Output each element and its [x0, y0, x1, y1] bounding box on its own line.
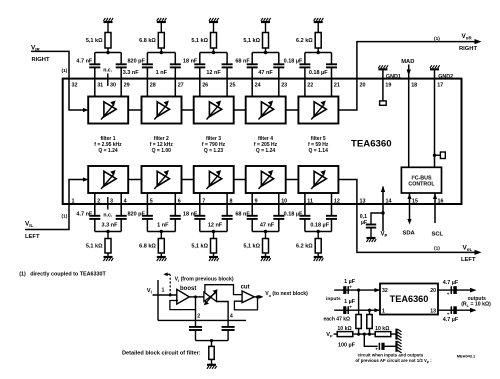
svg-text:32: 32 [72, 82, 78, 88]
svg-text:SDA: SDA [403, 231, 416, 237]
svg-text:47 nF: 47 nF [260, 222, 275, 228]
ground bottom section 2 [157, 256, 166, 258]
wire dashed from previous block [169, 275, 171, 296]
n.c. pin 30 stub [107, 74, 109, 87]
internal termination GND2 [440, 152, 445, 159]
arrow V_P up into IC [381, 186, 385, 192]
junction caps common [210, 339, 213, 342]
svg-text:4.7 µF: 4.7 µF [443, 317, 459, 323]
resistor 5,1 kohm bottom section 3 [213, 232, 215, 239]
wire GND2 stub [435, 154, 441, 156]
ground bottom section 1 [104, 256, 113, 258]
resistor 5,1 kohm top section 3 [213, 23, 215, 33]
op-amp filter5 right channel [298, 97, 338, 124]
supply rail top section 3 [209, 21, 218, 23]
svg-text:13: 13 [430, 308, 436, 314]
svg-text:10: 10 [281, 198, 287, 204]
svg-text:4: 4 [124, 198, 127, 204]
svg-text:47 nF: 47 nF [258, 70, 273, 76]
op-amp filter1 left channel [88, 166, 128, 193]
resistor 47k input top [358, 290, 360, 314]
capacitor 47 nF bottom section 4 right [278, 193, 280, 216]
svg-text:14: 14 [386, 198, 392, 204]
op-amp filter4 left channel [246, 166, 286, 193]
svg-text:GND1: GND1 [386, 74, 401, 80]
ground decoupling cap [367, 237, 376, 239]
svg-text:19: 19 [385, 82, 391, 88]
ground bottom section 4 [261, 256, 270, 258]
svg-text:12 nF: 12 nF [206, 70, 221, 76]
junction node bottom section 4 [264, 230, 267, 233]
wire attenuator to pin 4 [217, 302, 229, 327]
arrow V_oL output [475, 250, 482, 255]
wire cap bus bar bottom section 3 [200, 231, 227, 233]
svg-text:3.3 nF: 3.3 nF [123, 70, 140, 76]
svg-text:820 pF: 820 pF [127, 59, 145, 65]
op-amp filter3 right channel [194, 97, 234, 124]
svg-text:GND2: GND2 [438, 74, 453, 80]
wire pin 2 branch [195, 297, 197, 327]
resistor 10k mini 1 [337, 332, 353, 337]
svg-text:1 nF: 1 nF [157, 222, 169, 228]
op-amp filter1 right channel [88, 97, 128, 124]
svg-text:Q = 1.24: Q = 1.24 [98, 148, 118, 154]
arrow V_i previous block [166, 273, 170, 275]
op-amp filter2 right channel [142, 97, 182, 124]
wire V_IR input [31, 51, 86, 110]
resistor 5,1 kohm bottom section 4 [265, 232, 267, 239]
arrow V_oR output [475, 39, 482, 44]
svg-text:(1) directly coupled to TEA6: (1) directly coupled to TEA6330T [19, 271, 106, 277]
svg-text:2: 2 [197, 313, 200, 319]
svg-text:13: 13 [360, 198, 366, 204]
junction node bottom section 3 [212, 230, 215, 233]
svg-text:30: 30 [110, 82, 116, 88]
n.c. pin 3 stub [107, 197, 109, 210]
svg-text:5,1 kΩ: 5,1 kΩ [86, 38, 103, 44]
supply rail top section 2 [157, 21, 166, 23]
capacitor 820 pF top section 2 left [146, 53, 148, 65]
junction GND2 internal [433, 154, 436, 157]
wire chain top 1-2 [128, 109, 142, 111]
svg-text:5,1 kΩ: 5,1 kΩ [86, 243, 103, 249]
capacitor 68 nF top section 4 left [251, 53, 253, 65]
svg-text:6.8 kΩ: 6.8 kΩ [139, 243, 156, 249]
svg-text:VP: VP [381, 232, 388, 239]
svg-text:5,1 kΩ: 5,1 kΩ [191, 38, 208, 44]
op-amp filter4 right channel [246, 97, 286, 124]
wire output right channel pin 20 [338, 42, 478, 110]
op-amp filter5 left channel [298, 166, 338, 193]
arrow output 2 [470, 308, 477, 313]
resistor 5,1 kohm top section 4 [265, 23, 267, 33]
svg-text:26: 26 [202, 82, 208, 88]
svg-text:10 kΩ: 10 kΩ [337, 326, 351, 332]
capacitor 4.7 nF top section 1 left [94, 53, 96, 65]
wire MAD pin 18 [408, 65, 410, 168]
wire bypass top [205, 285, 242, 295]
svg-text:4.7 nF: 4.7 nF [76, 212, 93, 218]
wire GND1 pin 19 [382, 69, 384, 101]
svg-text:boost: boost [180, 286, 196, 292]
svg-text:0.18 µF: 0.18 µF [310, 222, 329, 228]
svg-text:12 nF: 12 nF [208, 222, 223, 228]
wire cap bus bar top section 2 [147, 52, 175, 54]
wire output 2 mini [438, 309, 471, 311]
wire boost feedback [170, 301, 196, 310]
svg-text:23: 23 [281, 82, 287, 88]
arrow MAD down [407, 70, 411, 76]
wire filter input [153, 294, 177, 296]
svg-text:18 nF: 18 nF [183, 59, 198, 65]
capacitor 4.7uF output top [450, 286, 452, 294]
capacitor 3.3 nF top section 1 right [120, 53, 122, 65]
svg-text:1 µF: 1 µF [344, 279, 356, 285]
svg-text:+: + [447, 312, 450, 317]
arrow into filter1 right channel [83, 108, 89, 112]
capacitor 0.18 uF bottom section 5 left [304, 193, 306, 216]
svg-text:Vi (from previous block): Vi (from previous block) [175, 276, 234, 283]
resistor 6.2 kohm top section 5 [317, 23, 319, 33]
junction node top section 2 [160, 51, 163, 54]
ground GND2 rail symbol [430, 68, 439, 70]
svg-text:CONTROL: CONTROL [408, 182, 435, 188]
svg-text:22: 22 [307, 82, 313, 88]
arrow into filter1 left channel [83, 177, 89, 181]
svg-text:1: 1 [72, 198, 75, 204]
svg-text:+: + [447, 291, 450, 296]
svg-text:+: + [375, 346, 378, 351]
svg-text:TEA6360: TEA6360 [351, 138, 392, 149]
junction rail 3 [368, 333, 371, 336]
svg-text:20: 20 [430, 288, 436, 294]
wire cap bus bar bottom section 5 [305, 231, 332, 233]
svg-text:4.7 nF: 4.7 nF [76, 59, 93, 65]
pin 1 tick detailed filter [157, 280, 159, 320]
capacitor 12 nF top section 3 right [226, 53, 228, 65]
svg-text:Vo (to next block): Vo (to next block) [265, 291, 308, 298]
svg-text:9: 9 [255, 198, 258, 204]
svg-text:31: 31 [97, 82, 103, 88]
svg-text:(1): (1) [434, 36, 440, 42]
resistor 47k input bottom [369, 310, 371, 314]
arrow V_o next block [259, 295, 264, 299]
svg-text:RIGHT: RIGHT [459, 46, 477, 52]
wire cap bus bar bottom section 2 [147, 231, 175, 233]
svg-text:0.18 µF: 0.18 µF [284, 59, 303, 65]
svg-text:Q = 1.00: Q = 1.00 [152, 148, 172, 154]
junction node bottom section 5 [317, 230, 320, 233]
capacitor filter node 2 [189, 326, 202, 328]
junction node top section 5 [317, 51, 320, 54]
wire chain top 3-4 [233, 109, 245, 111]
resistor filter common [211, 341, 213, 347]
capacitor 0.18 uF bottom section 5 right [331, 193, 333, 216]
wire V_P pin 14 [382, 187, 384, 232]
svg-text:4.7 µF: 4.7 µF [443, 280, 459, 286]
svg-text:10 kΩ: 10 kΩ [375, 326, 389, 332]
svg-text:n.c.: n.c. [103, 212, 112, 218]
junction node top section 3 [212, 51, 215, 54]
op-amp filter3 left channel [194, 166, 234, 193]
svg-text:LEFT: LEFT [25, 234, 40, 240]
svg-text:(1): (1) [434, 245, 440, 251]
wire to decoupling cap [371, 213, 383, 225]
arrow output 1 [470, 288, 477, 293]
wire caps common [196, 340, 229, 342]
svg-text:29: 29 [124, 82, 130, 88]
junction node top section 4 [264, 51, 267, 54]
wire cap bus bar top section 3 [200, 52, 227, 54]
wire input 1 mini [334, 289, 380, 291]
resistor 6.8 kohm top section 2 [160, 23, 162, 33]
svg-text:n.c.: n.c. [103, 67, 112, 73]
ground bottom section 5 [314, 256, 323, 258]
svg-text:0.18 µF: 0.18 µF [309, 70, 328, 76]
arrow into pin 1 [375, 308, 381, 312]
svg-text:17: 17 [437, 82, 443, 88]
arrow attenuator control [206, 291, 216, 303]
capacitor 1uF input bottom [343, 306, 346, 314]
svg-text:I²C-BUS: I²C-BUS [411, 176, 431, 182]
capacitor 1 nF top section 2 right [174, 53, 176, 65]
svg-text:5,1 kΩ: 5,1 kΩ [191, 243, 208, 249]
ground filter common [207, 364, 216, 366]
arrow into pin 32 [375, 288, 381, 292]
svg-text:21: 21 [334, 82, 340, 88]
capacitor 820 pF bottom section 2 left [146, 193, 148, 216]
svg-text:+: + [349, 305, 352, 310]
capacitor 1uF input top [343, 286, 346, 294]
capacitor 12 nF bottom section 3 right [226, 193, 228, 216]
svg-text:5,1 kΩ: 5,1 kΩ [243, 38, 260, 44]
capacitor 18 nF top section 3 left [199, 53, 201, 65]
svg-text:Q = 1.23: Q = 1.23 [204, 148, 224, 154]
svg-text:Detailed block circuit of filt: Detailed block circuit of filter: [122, 350, 201, 356]
junction dashed input [169, 294, 172, 297]
arrow SCL into block [433, 194, 437, 200]
resistor 5,1 kohm top section 1 [107, 23, 109, 33]
wire boost output [189, 296, 204, 298]
wire bottom rail detailed [158, 319, 246, 321]
resistor 6.8 kohm bottom section 2 [160, 232, 162, 239]
svg-text:0.18 µF: 0.18 µF [284, 212, 303, 218]
wire V_IL input [25, 180, 86, 230]
wire chain bottom 4-5 [285, 179, 298, 181]
wire chain bottom 3-4 [233, 179, 245, 181]
supply rail top section 1 [104, 21, 113, 23]
block TEA6360 mini [380, 284, 438, 315]
svg-text:MEH043.1: MEH043.1 [457, 353, 476, 358]
svg-text:(1): (1) [62, 68, 68, 74]
capacitor 47 nF top section 4 right [278, 53, 280, 65]
svg-text:4: 4 [230, 313, 233, 319]
wire SDA pin 15 [409, 193, 411, 222]
svg-text:6.2 kΩ: 6.2 kΩ [296, 38, 313, 44]
arrow SDA into block [407, 194, 411, 200]
wire chain bottom 2-3 [181, 179, 194, 181]
junction cut output [256, 295, 259, 298]
wire output left channel pin 13 [338, 180, 478, 253]
junction node bottom section 2 [160, 230, 163, 233]
wire cut feedback [234, 297, 257, 310]
capacitor 4.7uF output bottom [450, 306, 452, 314]
wire cap bus bar top section 4 [252, 52, 279, 54]
junction rail 1 [357, 333, 360, 336]
junction V_P decoupling [381, 211, 384, 214]
wire input 2 mini [334, 309, 380, 311]
svg-text:1 µF: 1 µF [344, 299, 356, 305]
ground bottom section 3 [209, 256, 218, 258]
capacitor 100uF [378, 343, 380, 350]
wire GND2 pin 17 [434, 69, 436, 167]
svg-text:16: 16 [438, 198, 444, 204]
junction node top section 1 [106, 51, 109, 54]
svg-text:Q = 1.24: Q = 1.24 [256, 148, 276, 154]
wire cap bus bar top section 5 [305, 52, 332, 54]
svg-text:5: 5 [150, 198, 153, 204]
variable attenuator symbol [204, 292, 210, 301]
svg-text:3: 3 [110, 198, 113, 204]
svg-text:3.3 nF: 3.3 nF [102, 222, 119, 228]
svg-text:inputs: inputs [326, 296, 341, 302]
junction node bottom section 1 [106, 230, 109, 233]
svg-text:(1): (1) [62, 214, 68, 220]
svg-text:Vi: Vi [147, 288, 152, 295]
supply rail top section 5 [314, 21, 323, 23]
svg-text:TEA6360: TEA6360 [390, 294, 429, 304]
svg-text:2: 2 [97, 198, 100, 204]
chassis ground 100uF [395, 341, 397, 352]
svg-text:27: 27 [178, 82, 184, 88]
svg-text:18: 18 [411, 82, 417, 88]
junction input top [357, 289, 360, 292]
svg-text:28: 28 [150, 82, 156, 88]
capacitor 0.18 uF top section 5 left [304, 53, 306, 65]
capacitor 3.3 nF bottom section 1 right [120, 193, 122, 216]
svg-text:(RL = 10 kΩ): (RL = 10 kΩ) [461, 302, 491, 308]
svg-text:15: 15 [412, 198, 418, 204]
wire SCL pin 16 [434, 193, 436, 223]
svg-text:6: 6 [178, 198, 181, 204]
wire 100uF branch [364, 334, 378, 346]
svg-text:LEFT: LEFT [461, 257, 476, 263]
svg-text:1: 1 [162, 288, 165, 294]
wire cap bus bar bottom section 1 [95, 231, 121, 233]
svg-text:SCL: SCL [432, 232, 444, 238]
svg-text:8: 8 [230, 198, 233, 204]
capacitor 68 nF bottom section 4 left [251, 193, 253, 216]
svg-text:7: 7 [202, 198, 205, 204]
capacitor 0.18 uF top section 5 right [331, 53, 333, 65]
svg-text:11: 11 [307, 198, 313, 204]
junction rail 2 [363, 333, 366, 336]
svg-text:cut: cut [241, 284, 250, 290]
svg-text:24: 24 [255, 82, 261, 88]
wire chain top 2-3 [181, 109, 194, 111]
op-amp cut [242, 291, 254, 303]
resistor 5,1 kohm bottom section 1 [107, 232, 109, 239]
svg-text:5,1 kΩ: 5,1 kΩ [243, 243, 260, 249]
resistor 10k mini 2 [375, 332, 391, 337]
svg-text:12: 12 [334, 198, 340, 204]
capacitor filter node 4 [222, 326, 235, 328]
svg-text:µF: µF [361, 220, 367, 226]
svg-text:820 pF: 820 pF [127, 212, 145, 218]
IC TEA6360 outline [63, 79, 462, 204]
svg-text:32: 32 [382, 288, 388, 294]
capacitor 4.7 nF bottom section 1 left [94, 193, 96, 216]
svg-text:25: 25 [230, 82, 236, 88]
wire cap bus bar top section 1 [95, 52, 121, 54]
supply rail top section 4 [261, 21, 270, 23]
wire cap bus bar bottom section 4 [252, 231, 279, 233]
wire cut output [254, 296, 260, 298]
wire 100uF to ground [385, 345, 396, 347]
svg-text:1 nF: 1 nF [156, 70, 168, 76]
svg-text:18 nF: 18 nF [183, 212, 198, 218]
junction input bottom [368, 309, 371, 312]
svg-text:+: + [349, 285, 352, 290]
wire V_P rail mini [334, 333, 396, 335]
svg-text:Q = 1.14: Q = 1.14 [309, 148, 329, 154]
svg-text:20: 20 [360, 82, 366, 88]
capacitor 18 nF bottom section 3 left [199, 193, 201, 216]
svg-text:VP: VP [326, 332, 333, 339]
capacitor 0.1uF decoupling [366, 224, 376, 226]
wire output 1 mini [438, 289, 471, 291]
wire chain top 4-5 [285, 109, 298, 111]
svg-text:6.8 kΩ: 6.8 kΩ [139, 38, 156, 44]
internal termination GND1 [380, 101, 387, 105]
op-amp filter2 left channel [142, 166, 182, 193]
arrow SDA down [407, 219, 411, 225]
svg-text:100 µF: 100 µF [338, 343, 356, 349]
junction boost output node 2 [194, 295, 197, 298]
chassis ground rail [395, 329, 397, 340]
svg-text:1: 1 [382, 308, 385, 314]
block I2C-BUS CONTROL [401, 167, 441, 193]
capacitor 1 nF bottom section 2 right [174, 193, 176, 216]
svg-text:RIGHT: RIGHT [32, 57, 50, 63]
svg-text:circuit when inputs and output: circuit when inputs and outputs [358, 353, 424, 358]
resistor 6.2 kohm bottom section 5 [317, 232, 319, 239]
ground GND1 rail symbol [378, 68, 387, 70]
svg-text:each 47 kΩ: each 47 kΩ [324, 316, 351, 322]
svg-text:6.2 kΩ: 6.2 kΩ [296, 243, 313, 249]
svg-text:68 nF: 68 nF [235, 59, 250, 65]
op-amp boost [177, 289, 190, 304]
wire chain bottom 1-2 [128, 179, 142, 181]
svg-text:68 nF: 68 nF [235, 212, 250, 218]
svg-text:MAD: MAD [401, 59, 414, 65]
